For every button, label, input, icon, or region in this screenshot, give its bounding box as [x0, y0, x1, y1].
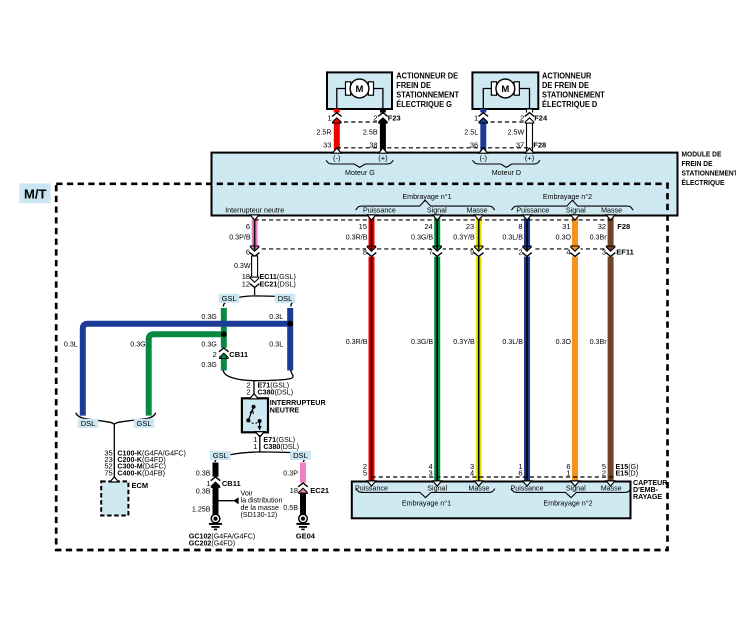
- svg-text:Embrayage n°1: Embrayage n°1: [402, 192, 451, 201]
- svg-text:EF11: EF11: [616, 248, 634, 257]
- svg-text:1: 1: [327, 113, 331, 122]
- svg-text:2.5B: 2.5B: [363, 127, 378, 136]
- svg-text:8: 8: [363, 248, 367, 257]
- svg-text:0.3G: 0.3G: [130, 339, 146, 348]
- svg-text:0.3R/B: 0.3R/B: [346, 233, 368, 242]
- svg-text:GSL: GSL: [213, 451, 228, 460]
- svg-text:ÉLECTRIQUE D: ÉLECTRIQUE D: [542, 100, 598, 109]
- svg-text:C380(DSL): C380(DSL): [258, 388, 294, 397]
- svg-text:Interrupteur neutre: Interrupteur neutre: [225, 205, 284, 214]
- svg-text:0.3Y/B: 0.3Y/B: [453, 233, 474, 242]
- svg-text:0.3G/B: 0.3G/B: [411, 233, 433, 242]
- svg-text:0.3P: 0.3P: [283, 468, 298, 477]
- svg-text:Puissance: Puissance: [355, 483, 388, 492]
- svg-text:7: 7: [429, 248, 433, 257]
- svg-text:ECM: ECM: [132, 481, 149, 490]
- svg-text:1: 1: [474, 113, 478, 122]
- svg-text:0.3W: 0.3W: [234, 261, 251, 270]
- svg-text:2: 2: [213, 350, 217, 359]
- svg-text:0.3L/B: 0.3L/B: [502, 233, 523, 242]
- svg-text:32: 32: [598, 222, 606, 231]
- svg-text:NEUTRE: NEUTRE: [270, 405, 299, 414]
- svg-text:0.3Br: 0.3Br: [590, 337, 607, 346]
- svg-text:CB11: CB11: [229, 350, 248, 359]
- svg-text:STATIONNEMENT: STATIONNEMENT: [682, 170, 736, 177]
- svg-text:GSL: GSL: [222, 294, 237, 303]
- svg-text:0.3L: 0.3L: [269, 312, 283, 321]
- svg-text:Masse: Masse: [467, 205, 488, 214]
- svg-text:DE FREIN DE: DE FREIN DE: [542, 81, 589, 90]
- svg-text:0.3L: 0.3L: [64, 339, 78, 348]
- svg-text:75: 75: [104, 468, 112, 477]
- svg-text:(SD130-12): (SD130-12): [241, 510, 278, 519]
- svg-text:0.3B: 0.3B: [196, 486, 211, 495]
- svg-text:18: 18: [290, 486, 298, 495]
- svg-text:DSL: DSL: [293, 451, 308, 460]
- svg-text:Moteur D: Moteur D: [492, 168, 522, 177]
- svg-text:RAYAGE: RAYAGE: [633, 492, 662, 501]
- svg-text:0.3G: 0.3G: [201, 360, 217, 369]
- svg-text:2: 2: [246, 388, 250, 397]
- svg-text:ACTIONNEUR: ACTIONNEUR: [542, 72, 592, 81]
- svg-text:F28: F28: [617, 222, 630, 231]
- svg-text:2: 2: [373, 113, 377, 122]
- svg-text:2: 2: [520, 113, 524, 122]
- svg-text:GC202(G4FD): GC202(G4FD): [189, 538, 236, 547]
- svg-text:CB11: CB11: [222, 479, 241, 488]
- svg-text:(+): (+): [525, 154, 535, 163]
- svg-text:Embrayage n°2: Embrayage n°2: [543, 192, 592, 201]
- svg-text:MODULE DE: MODULE DE: [682, 152, 722, 159]
- svg-text:0.3L: 0.3L: [269, 339, 283, 348]
- svg-text:23: 23: [466, 222, 474, 231]
- svg-text:M: M: [501, 84, 509, 95]
- svg-text:F23: F23: [388, 113, 401, 122]
- svg-text:12: 12: [242, 280, 250, 289]
- svg-text:(+): (+): [378, 154, 388, 163]
- svg-text:Embrayage n°2: Embrayage n°2: [543, 498, 592, 507]
- svg-text:DSL: DSL: [278, 294, 293, 303]
- svg-text:STATIONNEMENT: STATIONNEMENT: [542, 91, 605, 100]
- svg-text:F24: F24: [534, 113, 548, 122]
- svg-text:6: 6: [246, 248, 250, 257]
- svg-text:GSL: GSL: [136, 419, 151, 428]
- svg-text:3: 3: [602, 248, 606, 257]
- svg-text:DSL: DSL: [81, 419, 96, 428]
- svg-text:STATIONNEMENT: STATIONNEMENT: [396, 91, 459, 100]
- svg-text:Puissance: Puissance: [363, 205, 396, 214]
- svg-text:0.3R/B: 0.3R/B: [346, 337, 368, 346]
- svg-text:Puissance: Puissance: [511, 483, 544, 492]
- svg-text:0.3O: 0.3O: [556, 233, 572, 242]
- svg-text:M/T: M/T: [24, 186, 46, 201]
- svg-text:0.5B: 0.5B: [283, 503, 298, 512]
- svg-text:0.3Br: 0.3Br: [590, 233, 607, 242]
- svg-text:4: 4: [470, 469, 474, 478]
- svg-text:36: 36: [470, 141, 478, 150]
- svg-text:8: 8: [518, 222, 522, 231]
- svg-text:(-): (-): [333, 154, 341, 163]
- svg-text:33: 33: [323, 141, 331, 150]
- svg-text:0.3B: 0.3B: [196, 468, 211, 477]
- svg-text:Embrayage n°1: Embrayage n°1: [402, 498, 451, 507]
- svg-text:0.3G: 0.3G: [201, 312, 217, 321]
- svg-text:Masse: Masse: [468, 483, 489, 492]
- svg-text:2: 2: [602, 469, 606, 478]
- svg-text:0.3G: 0.3G: [201, 339, 217, 348]
- svg-text:ACTIONNEUR DE: ACTIONNEUR DE: [396, 72, 458, 81]
- svg-text:6: 6: [518, 469, 522, 478]
- svg-text:(-): (-): [480, 154, 488, 163]
- svg-text:Moteur G: Moteur G: [345, 168, 375, 177]
- svg-text:5: 5: [363, 469, 367, 478]
- svg-text:1.25B: 1.25B: [192, 504, 211, 513]
- svg-text:EC21(DSL): EC21(DSL): [260, 280, 297, 289]
- svg-text:GE04: GE04: [296, 531, 316, 540]
- svg-text:Signal: Signal: [566, 483, 586, 492]
- svg-text:0.3O: 0.3O: [556, 337, 572, 346]
- svg-text:Masse: Masse: [601, 205, 622, 214]
- svg-text:C400-K(D4FB): C400-K(D4FB): [117, 468, 165, 477]
- svg-text:Puissance: Puissance: [516, 205, 549, 214]
- svg-text:E15(D): E15(D): [616, 469, 639, 478]
- svg-text:6: 6: [246, 222, 250, 231]
- svg-text:Signal: Signal: [566, 205, 586, 214]
- svg-text:37: 37: [516, 141, 524, 150]
- svg-text:2.5L: 2.5L: [464, 127, 478, 136]
- svg-text:Signal: Signal: [427, 205, 447, 214]
- svg-text:ÉLECTRIQUE: ÉLECTRIQUE: [682, 178, 725, 187]
- svg-text:EC21: EC21: [310, 486, 329, 495]
- svg-text:2: 2: [518, 248, 522, 257]
- svg-text:FREIN DE: FREIN DE: [682, 161, 713, 168]
- svg-text:38: 38: [369, 141, 377, 150]
- svg-text:0.3L/B: 0.3L/B: [502, 337, 523, 346]
- svg-text:31: 31: [562, 222, 570, 231]
- svg-text:4: 4: [566, 248, 570, 257]
- svg-text:F28: F28: [533, 141, 546, 150]
- svg-text:Signal: Signal: [427, 483, 447, 492]
- svg-text:C380(DSL): C380(DSL): [263, 442, 299, 451]
- svg-text:24: 24: [424, 222, 432, 231]
- svg-text:3: 3: [429, 469, 433, 478]
- svg-text:ÉLECTRIQUE G: ÉLECTRIQUE G: [396, 100, 452, 109]
- svg-text:0.3P/B: 0.3P/B: [229, 233, 250, 242]
- svg-text:9: 9: [470, 248, 474, 257]
- svg-text:1: 1: [253, 442, 257, 451]
- svg-text:2.5R: 2.5R: [317, 127, 333, 136]
- svg-text:Masse: Masse: [601, 483, 622, 492]
- svg-text:15: 15: [359, 222, 367, 231]
- svg-text:1: 1: [566, 469, 570, 478]
- svg-text:0.3G/B: 0.3G/B: [411, 337, 433, 346]
- svg-text:FREIN DE: FREIN DE: [396, 81, 431, 90]
- svg-text:M: M: [356, 84, 364, 95]
- svg-text:0.3Y/B: 0.3Y/B: [453, 337, 474, 346]
- svg-text:2.5W: 2.5W: [508, 127, 525, 136]
